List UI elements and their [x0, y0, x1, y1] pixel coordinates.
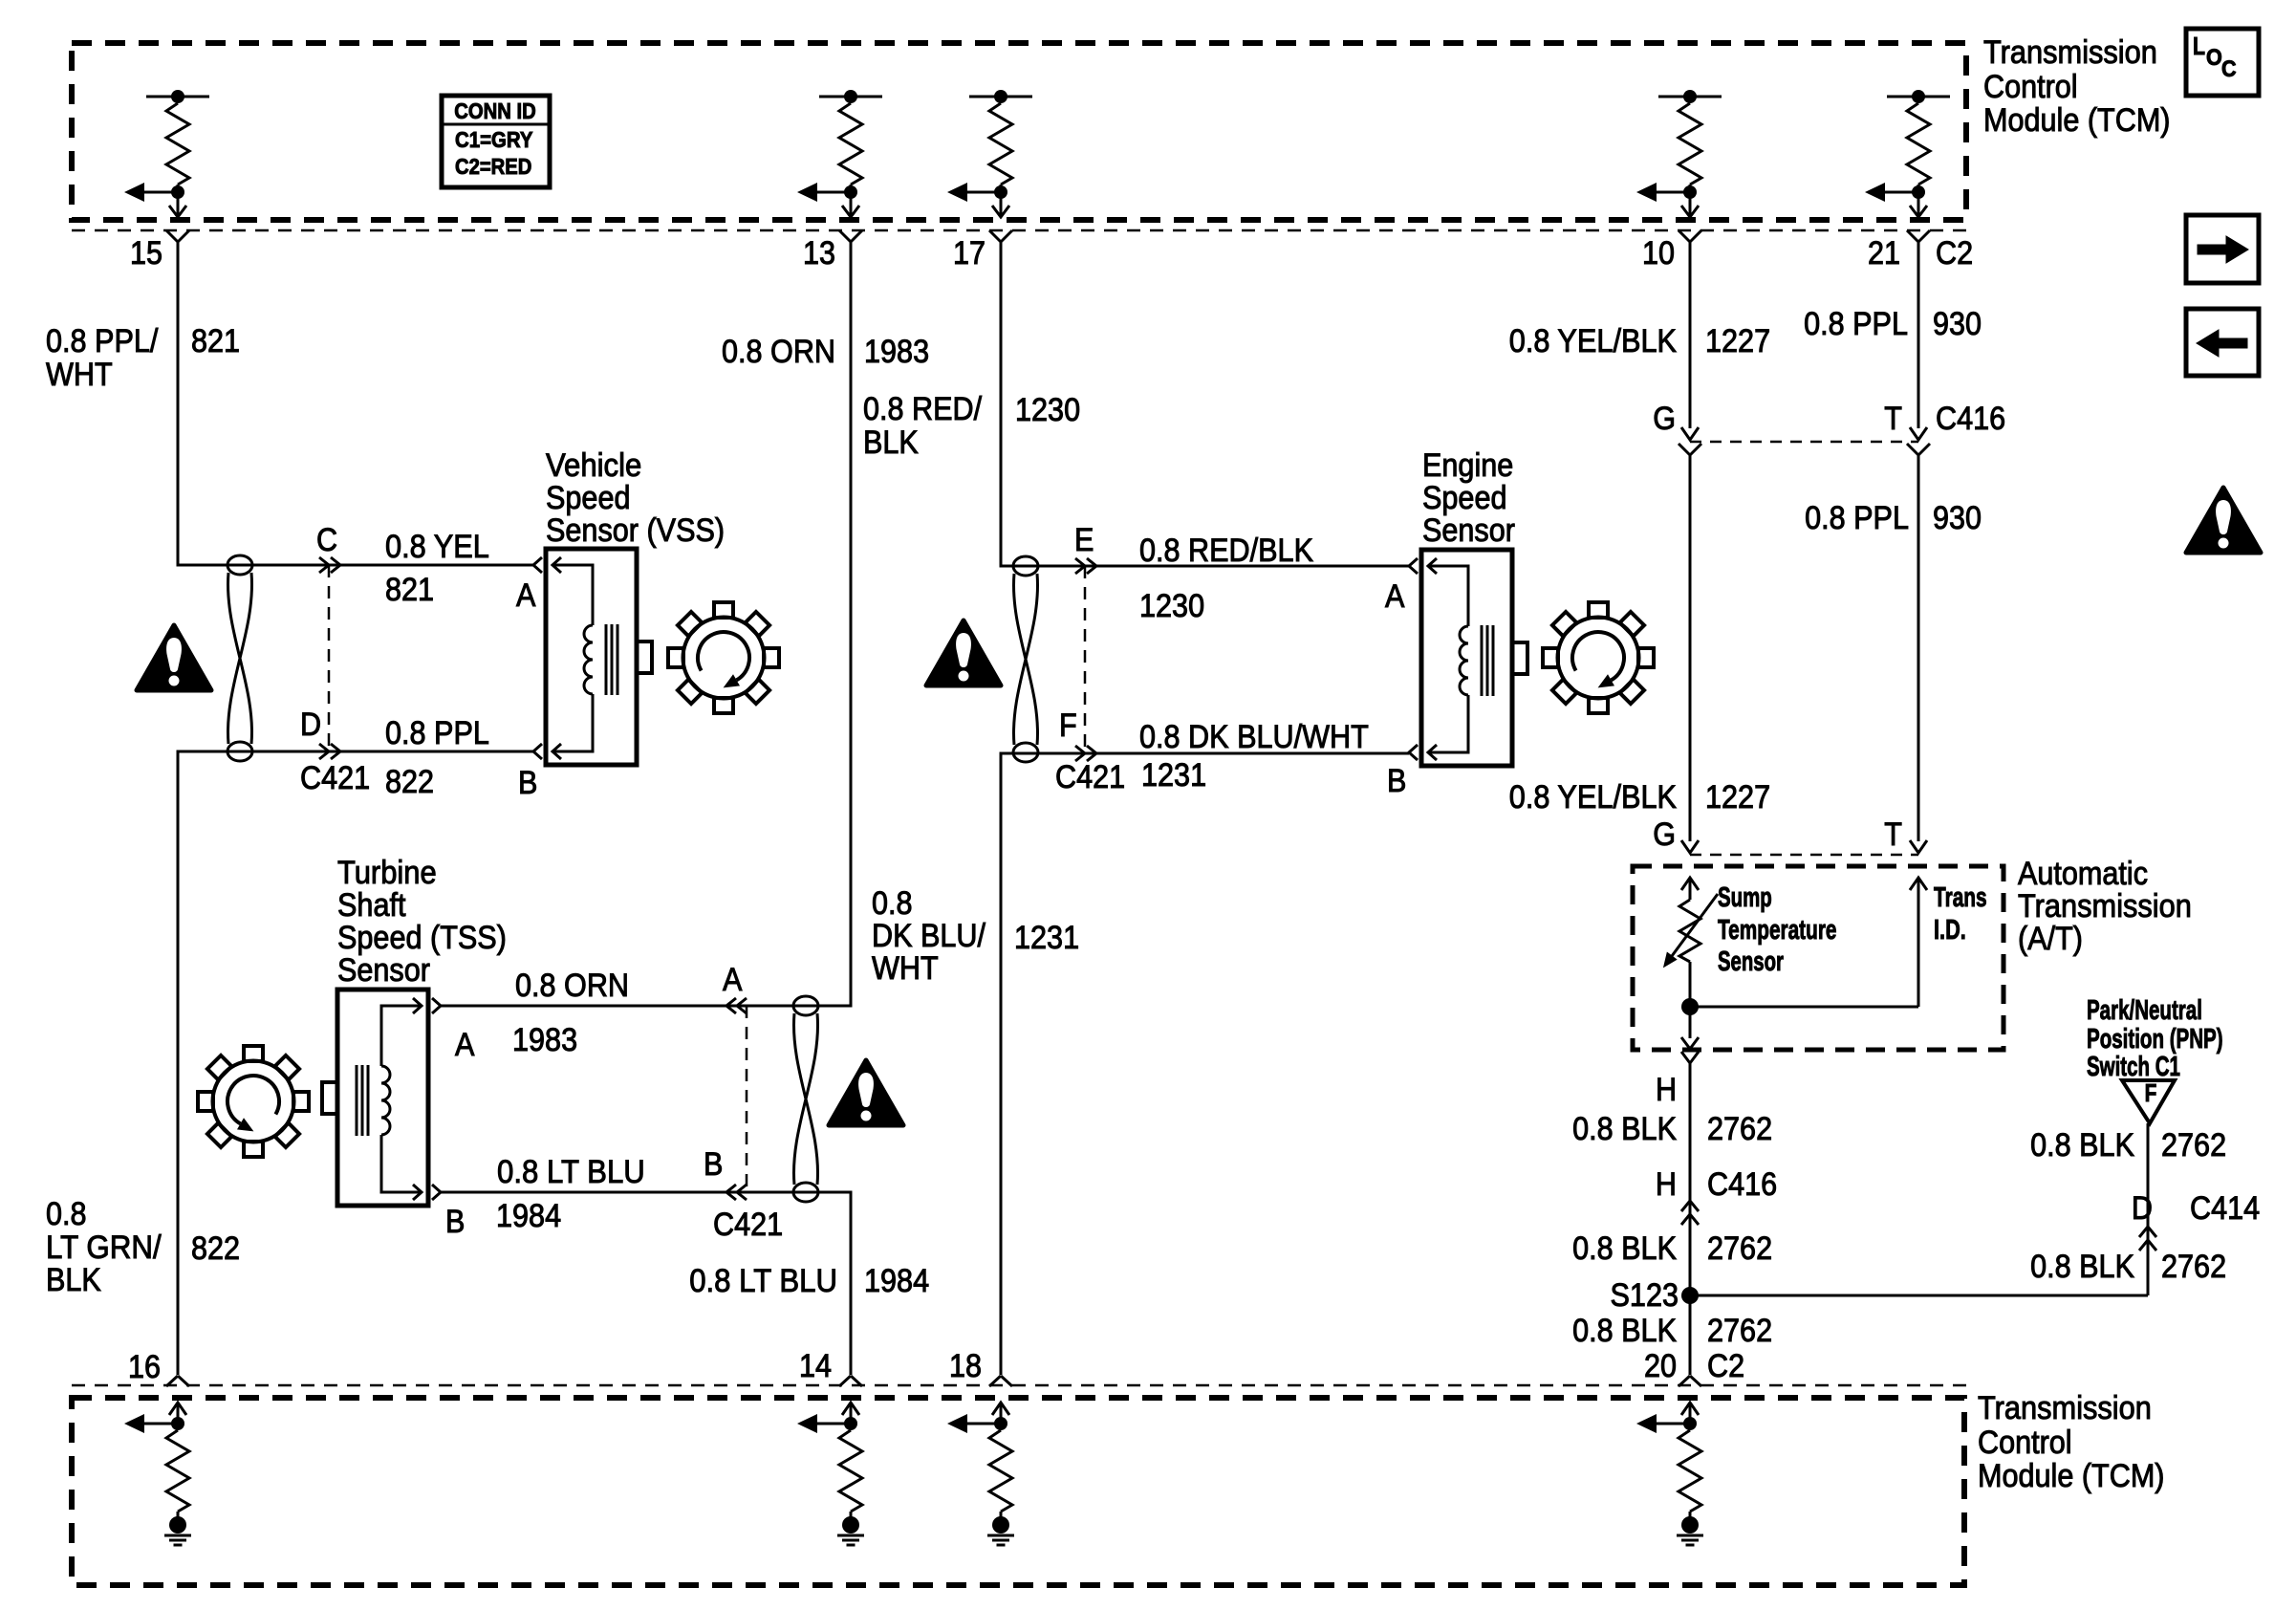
svg-text:1231: 1231 [1141, 757, 1206, 794]
svg-text:DK BLU/: DK BLU/ [872, 918, 986, 954]
svg-text:Switch C1: Switch C1 [2087, 1052, 2180, 1082]
svg-text:A: A [516, 577, 536, 614]
svg-text:0.8 BLK: 0.8 BLK [1572, 1230, 1677, 1267]
svg-text:2762: 2762 [2161, 1249, 2226, 1285]
svg-text:A: A [1385, 578, 1405, 615]
svg-text:C416: C416 [1936, 401, 2005, 437]
svg-text:Speed: Speed [1422, 480, 1507, 516]
svg-text:930: 930 [1933, 500, 1982, 536]
svg-text:Module (TCM): Module (TCM) [1983, 102, 2171, 139]
svg-text:1227: 1227 [1705, 323, 1770, 359]
svg-text:F: F [2145, 1078, 2157, 1107]
svg-text:Control: Control [1983, 69, 2078, 105]
svg-text:C: C [2221, 56, 2237, 82]
svg-text:Position (PNP): Position (PNP) [2087, 1024, 2223, 1055]
svg-text:O: O [2206, 45, 2222, 71]
svg-text:0.8 PPL: 0.8 PPL [385, 715, 489, 751]
svg-text:C416: C416 [1707, 1166, 1777, 1203]
svg-text:C421: C421 [713, 1207, 783, 1243]
svg-text:0.8 BLK: 0.8 BLK [2030, 1127, 2134, 1164]
svg-text:C: C [316, 522, 337, 558]
svg-text:18: 18 [949, 1348, 982, 1384]
svg-text:0.8 YEL: 0.8 YEL [385, 529, 489, 565]
svg-text:C1=GRY: C1=GRY [455, 127, 533, 152]
svg-text:CONN ID: CONN ID [454, 98, 536, 123]
svg-text:B: B [445, 1204, 465, 1240]
svg-text:821: 821 [385, 572, 434, 608]
svg-text:Sensor: Sensor [1718, 946, 1784, 977]
svg-text:0.8: 0.8 [872, 885, 913, 922]
svg-text:0.8 PPL/: 0.8 PPL/ [46, 323, 159, 359]
svg-text:1227: 1227 [1705, 779, 1770, 816]
svg-text:16: 16 [128, 1349, 161, 1385]
svg-text:G: G [1653, 816, 1676, 853]
svg-text:F: F [1059, 707, 1077, 744]
svg-text:Vehicle: Vehicle [546, 447, 641, 484]
svg-text:I.D.: I.D. [1934, 915, 1966, 946]
svg-text:14: 14 [799, 1348, 832, 1384]
svg-text:0.8 ORN: 0.8 ORN [722, 334, 835, 370]
svg-text:S123: S123 [1611, 1277, 1679, 1314]
svg-text:Sensor: Sensor [1422, 512, 1515, 549]
svg-text:0.8: 0.8 [46, 1196, 87, 1232]
svg-text:10: 10 [1642, 235, 1675, 272]
svg-text:A: A [723, 962, 743, 998]
svg-text:2762: 2762 [2161, 1127, 2226, 1164]
svg-text:WHT: WHT [872, 950, 939, 987]
svg-text:0.8 PPL: 0.8 PPL [1804, 306, 1908, 342]
svg-text:C414: C414 [2190, 1190, 2260, 1227]
svg-text:WHT: WHT [46, 357, 113, 393]
svg-text:1983: 1983 [512, 1022, 577, 1058]
svg-text:B: B [1387, 763, 1406, 799]
svg-text:Trans: Trans [1934, 882, 1987, 913]
svg-text:1984: 1984 [496, 1198, 561, 1234]
svg-text:0.8 RED/BLK: 0.8 RED/BLK [1139, 533, 1313, 569]
svg-text:Turbine: Turbine [337, 855, 437, 891]
svg-text:Transmission: Transmission [1983, 34, 2157, 71]
svg-text:0.8 BLK: 0.8 BLK [1572, 1313, 1677, 1349]
svg-text:T: T [1884, 401, 1902, 437]
svg-text:1984: 1984 [864, 1263, 929, 1299]
svg-text:2762: 2762 [1707, 1111, 1772, 1147]
svg-text:0.8 BLK: 0.8 BLK [1572, 1111, 1677, 1147]
svg-text:BLK: BLK [46, 1262, 101, 1298]
svg-text:BLK: BLK [863, 424, 919, 461]
svg-text:2762: 2762 [1707, 1230, 1772, 1267]
svg-text:H: H [1656, 1072, 1677, 1108]
svg-text:B: B [518, 765, 537, 801]
svg-text:L: L [2193, 32, 2205, 60]
svg-text:0.8 ORN: 0.8 ORN [515, 968, 629, 1004]
svg-text:E: E [1074, 522, 1094, 558]
svg-text:Transmission: Transmission [1978, 1390, 2152, 1426]
svg-text:Transmission: Transmission [2018, 888, 2192, 925]
svg-text:2762: 2762 [1707, 1313, 1772, 1349]
svg-text:0.8 YEL/BLK: 0.8 YEL/BLK [1509, 323, 1677, 359]
svg-text:Speed (TSS): Speed (TSS) [337, 920, 507, 956]
svg-text:1230: 1230 [1139, 588, 1204, 624]
svg-text:D: D [2132, 1190, 2153, 1227]
svg-text:H: H [1656, 1166, 1677, 1203]
svg-text:(A/T): (A/T) [2018, 921, 2083, 957]
svg-text:Sensor: Sensor [337, 952, 430, 989]
svg-text:Module (TCM): Module (TCM) [1978, 1458, 2165, 1494]
svg-text:T: T [1884, 816, 1902, 853]
svg-text:Park/Neutral: Park/Neutral [2087, 995, 2202, 1026]
svg-text:15: 15 [130, 235, 162, 272]
svg-text:Temperature: Temperature [1718, 915, 1837, 946]
svg-text:D: D [300, 707, 321, 743]
svg-text:LT GRN/: LT GRN/ [46, 1229, 162, 1266]
svg-text:20: 20 [1644, 1348, 1677, 1384]
svg-text:B: B [704, 1146, 723, 1183]
svg-text:17: 17 [953, 235, 986, 272]
svg-text:0.8 RED/: 0.8 RED/ [863, 391, 983, 427]
svg-text:21: 21 [1868, 235, 1900, 272]
svg-text:0.8 BLK: 0.8 BLK [2030, 1249, 2134, 1285]
svg-text:0.8 YEL/BLK: 0.8 YEL/BLK [1509, 779, 1677, 816]
svg-text:Automatic: Automatic [2018, 856, 2148, 892]
svg-text:Sensor (VSS): Sensor (VSS) [546, 512, 725, 549]
svg-text:13: 13 [803, 235, 835, 272]
svg-text:G: G [1653, 401, 1676, 437]
svg-text:A: A [455, 1027, 475, 1063]
svg-text:822: 822 [191, 1230, 240, 1267]
svg-text:821: 821 [191, 323, 240, 359]
svg-text:0.8 PPL: 0.8 PPL [1805, 500, 1909, 536]
svg-text:C2: C2 [1707, 1348, 1744, 1384]
svg-text:Speed: Speed [546, 480, 631, 516]
svg-text:C421: C421 [1055, 759, 1125, 795]
svg-text:C421: C421 [300, 760, 370, 796]
svg-text:822: 822 [385, 764, 434, 800]
svg-text:0.8 LT BLU: 0.8 LT BLU [689, 1263, 837, 1299]
svg-text:Engine: Engine [1422, 447, 1513, 484]
svg-text:C2=RED: C2=RED [455, 154, 531, 179]
svg-text:930: 930 [1933, 306, 1982, 342]
svg-text:1231: 1231 [1014, 920, 1079, 956]
svg-text:0.8 DK BLU/WHT: 0.8 DK BLU/WHT [1139, 719, 1369, 755]
svg-text:Shaft: Shaft [337, 887, 406, 924]
svg-text:1983: 1983 [864, 334, 929, 370]
svg-text:0.8 LT BLU: 0.8 LT BLU [497, 1154, 645, 1190]
svg-text:Sump: Sump [1718, 882, 1772, 913]
svg-text:Control: Control [1978, 1425, 2072, 1461]
svg-text:C2: C2 [1936, 235, 1973, 272]
svg-text:1230: 1230 [1015, 392, 1080, 428]
